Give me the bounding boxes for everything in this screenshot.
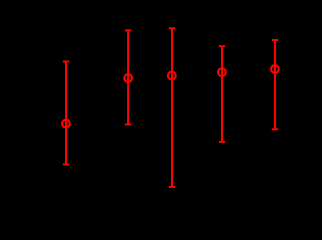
errorbar 4 xyxy=(218,46,226,142)
errorbar 3 xyxy=(168,28,176,187)
errorbar 2 xyxy=(124,30,132,124)
errorbar 5 xyxy=(271,40,279,129)
errorbar 1 xyxy=(62,62,70,165)
